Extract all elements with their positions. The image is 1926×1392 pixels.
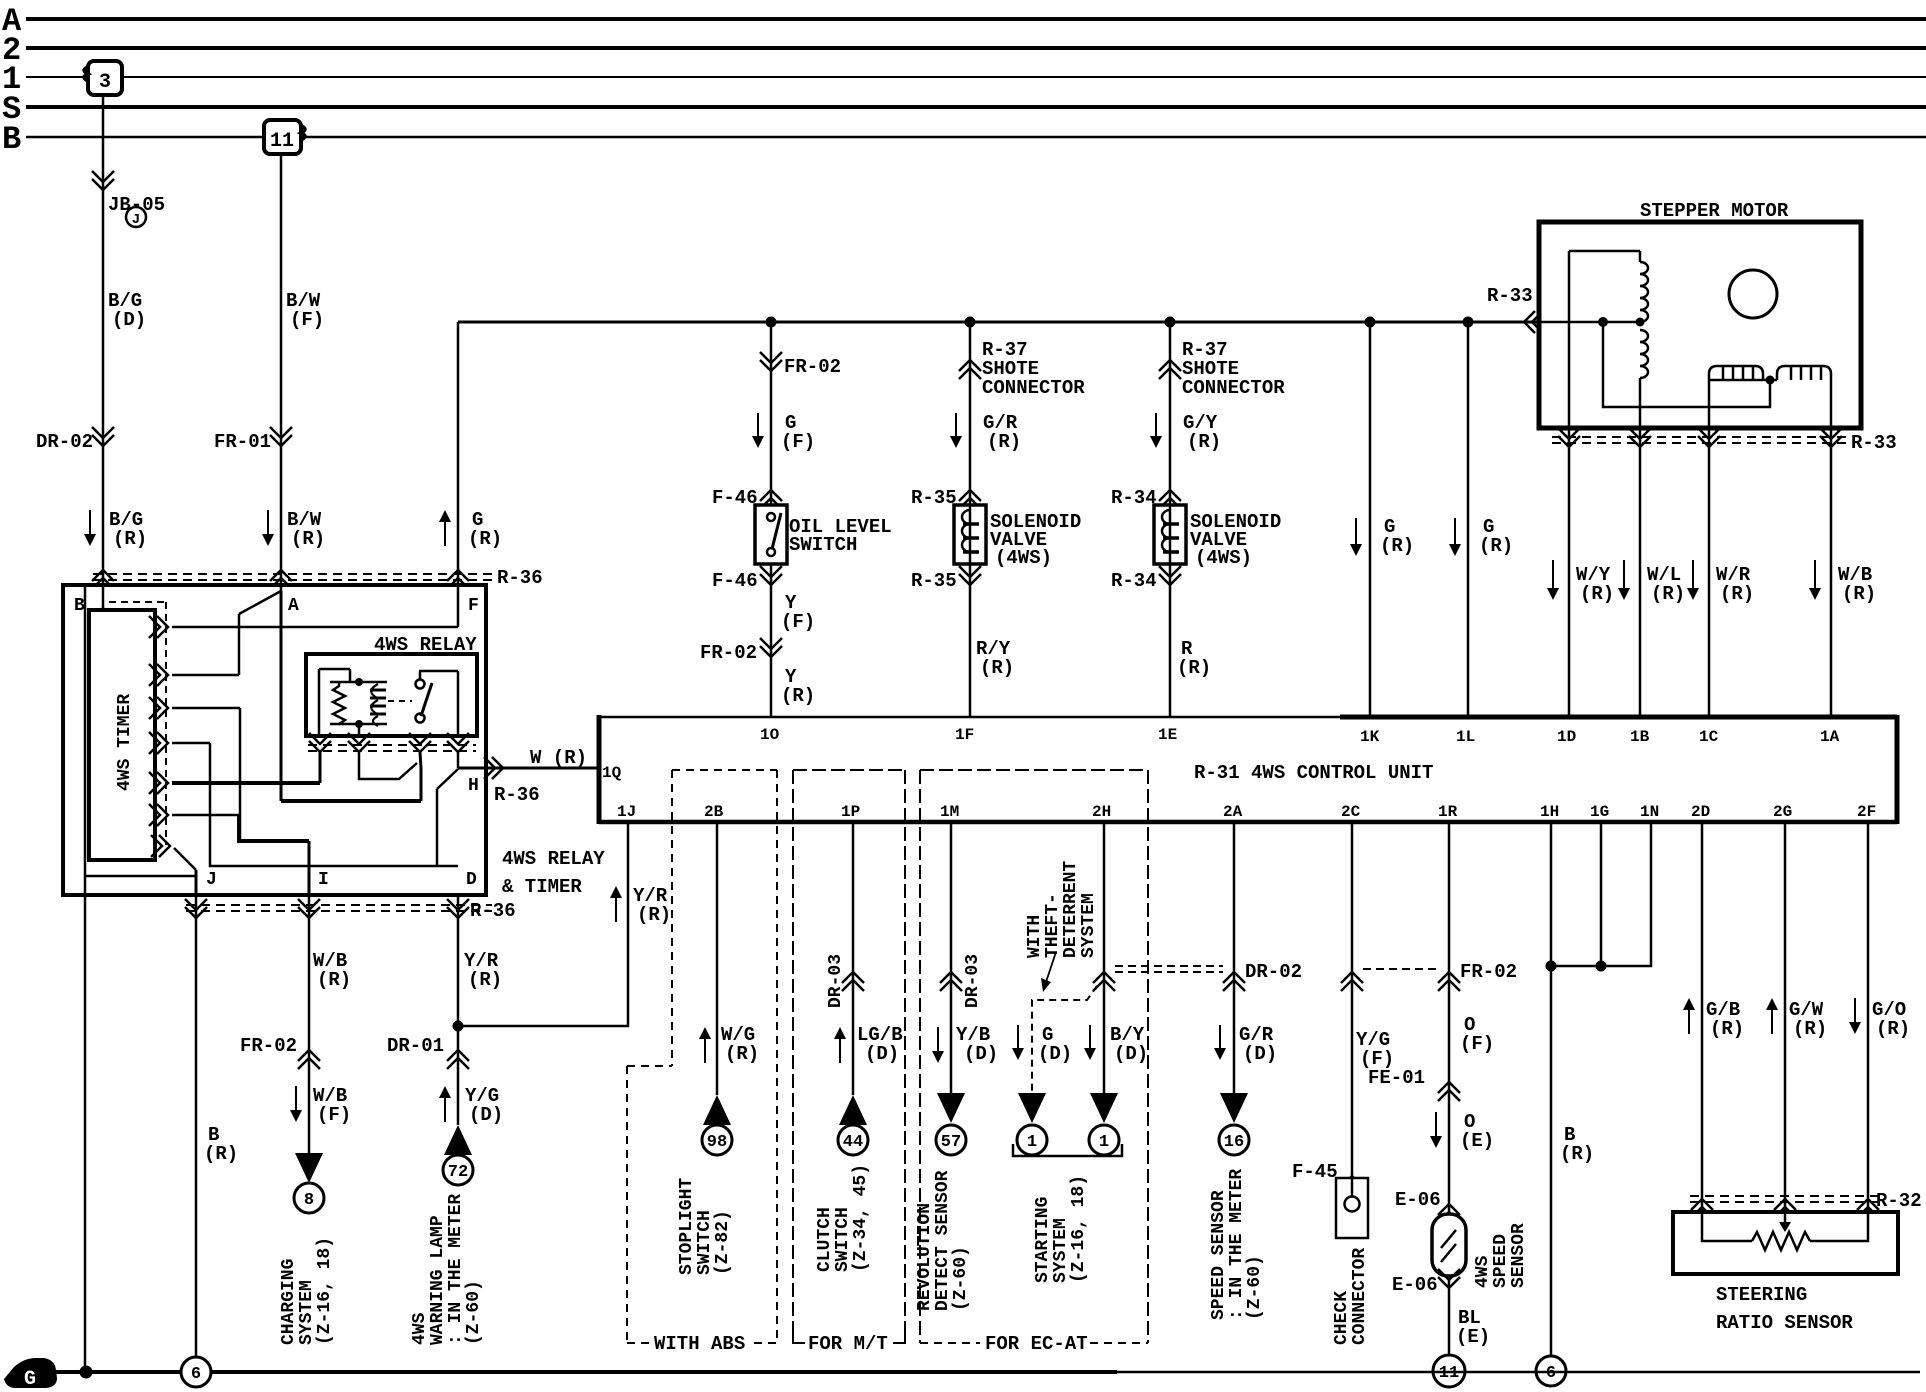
svg-text:R-32: R-32 (1876, 1190, 1922, 1212)
bus line A (26, 17, 1926, 21)
wire I charging (308, 895, 311, 1155)
connector 3 on line 1 (88, 61, 122, 95)
svg-text:(R): (R) (291, 528, 325, 550)
svg-text:1C: 1C (1699, 728, 1719, 746)
svg-text:1K: 1K (1360, 728, 1380, 746)
svg-text:R-35: R-35 (911, 570, 957, 592)
svg-text:(R): (R) (637, 904, 671, 926)
relay top rail left (319, 668, 350, 671)
svg-text:SYSTEM: SYSTEM (297, 1280, 317, 1345)
svg-text:(4WS): (4WS) (1195, 547, 1252, 569)
stepper feed wire from bus (1539, 321, 1640, 324)
wire 1K (1369, 322, 1372, 717)
svg-text:WITH: WITH (1025, 915, 1045, 958)
wire 1L (1467, 322, 1470, 717)
wire 1J (458, 822, 628, 1026)
dashed box WITH ABS (672, 769, 777, 771)
wire 1C (1708, 428, 1711, 717)
ground symbol G (4, 1358, 57, 1388)
svg-text:R-33: R-33 (1487, 285, 1533, 307)
svg-text:(E): (E) (1456, 1326, 1490, 1348)
svg-text:DR-02: DR-02 (1245, 961, 1302, 983)
connector R-34 lower chevron (1159, 566, 1181, 585)
wire 1R sensor (1448, 822, 1451, 1214)
svg-text:2B: 2B (704, 803, 724, 821)
svg-text:(R): (R) (725, 1043, 759, 1065)
svg-text:J: J (132, 212, 140, 228)
svg-text:2C: 2C (1341, 803, 1361, 821)
wire 1O lower (770, 564, 773, 717)
svg-text:(R): (R) (1177, 657, 1211, 679)
steering sensor right lead (1810, 1212, 1868, 1241)
svg-text:FR-02: FR-02 (700, 642, 757, 664)
relay right leg (457, 671, 460, 736)
svg-text:(R): (R) (980, 657, 1014, 679)
wire pin B to timer (102, 585, 105, 610)
circle 1 starting (1089, 1125, 1119, 1155)
svg-text:STEERING: STEERING (1716, 1284, 1807, 1306)
svg-text:1N: 1N (1640, 803, 1659, 821)
bus line B (26, 136, 1926, 139)
svg-text:F: F (468, 596, 479, 616)
svg-text:(R): (R) (204, 1143, 238, 1165)
4WS speed sensor symbol (1432, 1214, 1466, 1276)
svg-text:2A: 2A (1223, 803, 1243, 821)
svg-text:(F): (F) (317, 1104, 351, 1126)
circle 98 stoplight (702, 1125, 732, 1155)
arrow down G (D) (1017, 1025, 1019, 1052)
svg-text:(R): (R) (781, 685, 815, 707)
svg-text:THEFT-: THEFT- (1043, 893, 1063, 958)
svg-text:2F: 2F (1857, 803, 1876, 821)
svg-text:D: D (466, 870, 477, 890)
svg-text:8: 8 (304, 1191, 314, 1210)
svg-text:R-33: R-33 (1851, 432, 1897, 454)
triangle from warning lamp (444, 1125, 472, 1155)
circle 44 clutch (838, 1125, 868, 1155)
svg-text:R-34: R-34 (1111, 487, 1157, 509)
relay top rail right (419, 670, 458, 673)
svg-text:(F): (F) (781, 431, 815, 453)
wire 1D (1568, 428, 1571, 717)
svg-text:1M: 1M (940, 803, 959, 821)
relay coil bottom exit wire (359, 752, 417, 779)
bus line S (26, 105, 1926, 109)
svg-text:CHECK: CHECK (1332, 1291, 1352, 1345)
connector R-33 chevron left (1524, 311, 1543, 333)
svg-text:(Z-60): (Z-60) (951, 1246, 971, 1311)
connector R-35 upper chevron (959, 490, 981, 509)
wire 1F lower (969, 564, 972, 717)
connector R-33 band (1552, 436, 1848, 438)
svg-text:(F): (F) (781, 611, 815, 633)
check connector box (1336, 1178, 1368, 1238)
stepper coil leg 1A (1830, 380, 1833, 428)
connector FR-01 chevron (270, 427, 292, 446)
arrow down G (R) 1K (1355, 518, 1357, 548)
svg-text:(R): (R) (1580, 583, 1614, 605)
relay left leg (318, 669, 321, 736)
timer row I lower wire (172, 814, 239, 817)
connector R-37 chevron 1 (959, 360, 981, 379)
steering ratio sensor box (1673, 1212, 1898, 1274)
svg-text:(R): (R) (1651, 583, 1685, 605)
stepper inner return wire (1603, 322, 1770, 407)
svg-text:(Z-82): (Z-82) (713, 1210, 733, 1275)
wire D warning lamp (457, 895, 460, 1125)
svg-text:(R): (R) (468, 528, 502, 550)
connector F-46 lower chevron (760, 566, 782, 585)
relay connector band (308, 744, 476, 746)
connector FR-02 chevron I (298, 1050, 320, 1069)
svg-text:DR-03: DR-03 (826, 954, 846, 1008)
svg-text:F-46: F-46 (712, 487, 758, 509)
svg-text:(R): (R) (317, 969, 351, 991)
connector R-34 upper chevron (1159, 490, 1181, 509)
junction 1G (1596, 961, 1607, 972)
connector R-32 band (1690, 1195, 1878, 1197)
svg-text:(R): (R) (987, 431, 1021, 453)
connector R-36 top band (93, 573, 492, 575)
svg-text:(D): (D) (1114, 1043, 1148, 1065)
wire 1B (1639, 428, 1642, 717)
svg-text:2D: 2D (1691, 803, 1710, 821)
wire 2C check (1351, 822, 1354, 1178)
connector DR-01 chevron (447, 1050, 469, 1069)
wire 1N (1551, 822, 1651, 966)
4WS timer box (89, 610, 155, 860)
svg-text:1A: 1A (1820, 728, 1840, 746)
svg-text:H: H (468, 776, 479, 796)
junction node 1E (1165, 317, 1176, 328)
triangle to charging system (295, 1153, 323, 1183)
arrow down G/R (R) (955, 413, 957, 440)
svg-text:(R): (R) (1720, 583, 1754, 605)
timer row A wire (172, 674, 239, 677)
stepper horizontal coil left (1709, 366, 1763, 380)
arrow down G/R (D) (1219, 1025, 1221, 1052)
svg-text:4WS TIMER: 4WS TIMER (115, 694, 135, 791)
svg-text:FOR M/T: FOR M/T (808, 1333, 888, 1355)
connector F-45 chevron (1341, 1176, 1363, 1195)
svg-text:STEPPER MOTOR: STEPPER MOTOR (1640, 200, 1789, 222)
connector FR-02 chevron 1R (1438, 972, 1460, 991)
4WS relay and timer outer box (63, 585, 486, 895)
relay coil (370, 689, 386, 692)
svg-text:WARNING LAMP: WARNING LAMP (428, 1215, 448, 1345)
circled J (126, 207, 146, 227)
svg-text:FR-01: FR-01 (214, 431, 271, 453)
steering sensor wiper (1784, 1212, 1787, 1222)
ground bus wire (40, 1370, 1117, 1374)
steering sensor potentiometer (1752, 1232, 1810, 1250)
connector FR-02 chevron upper (760, 352, 782, 371)
circle 72 warning lamp (443, 1155, 473, 1185)
svg-text:(Z-16, 18): (Z-16, 18) (315, 1237, 335, 1345)
triangle to starting system 2 (1090, 1093, 1118, 1123)
wire pin A vertical (280, 591, 283, 801)
svg-text:4WS RELAY: 4WS RELAY (502, 848, 605, 870)
arrow down W/B (F) (295, 1086, 297, 1114)
circle 11 ground (1433, 1355, 1465, 1387)
svg-text:1R: 1R (1438, 803, 1458, 821)
svg-text:1Q: 1Q (602, 764, 622, 782)
svg-text:FOR EC-AT: FOR EC-AT (985, 1333, 1088, 1355)
arrow down B/Y (1089, 1025, 1091, 1052)
control unit R-31 box (599, 716, 1340, 719)
stepper coil leg 1C (1708, 380, 1711, 428)
ground rail to bus (84, 876, 87, 1372)
steering sensor left lead (1702, 1212, 1752, 1241)
svg-text:(D): (D) (1038, 1043, 1072, 1065)
svg-text:(F): (F) (290, 309, 324, 331)
junction node 1F (965, 317, 976, 328)
junction D to 1J (453, 1021, 464, 1032)
timer row D wire (172, 742, 210, 745)
svg-text:(4WS): (4WS) (995, 547, 1052, 569)
svg-text:G: G (24, 1368, 36, 1391)
svg-text:(Z-60): (Z-60) (1245, 1255, 1265, 1320)
svg-text:B: B (74, 596, 85, 616)
connector E-06 lower chevron (1438, 1269, 1460, 1288)
svg-text:(R): (R) (1187, 431, 1221, 453)
svg-text:1D: 1D (1557, 728, 1576, 746)
dashed box FOR M/T (793, 769, 905, 771)
svg-text:57: 57 (941, 1133, 961, 1152)
svg-text:F-45: F-45 (1292, 1161, 1338, 1183)
connector E-06 upper chevron (1438, 1204, 1460, 1223)
svg-text:FR-02: FR-02 (240, 1035, 297, 1057)
svg-text:A: A (288, 596, 299, 616)
stepper vertical coil lower (1640, 330, 1648, 378)
svg-text:44: 44 (843, 1133, 863, 1152)
wire 1F upper (969, 322, 972, 505)
svg-text:STARTING: STARTING (1033, 1197, 1053, 1283)
wire relay to D-net diagonal (437, 769, 458, 789)
wire 1R to ground bus (1448, 1276, 1451, 1355)
relay coil bottom bar (330, 723, 387, 726)
svg-text:E-06: E-06 (1395, 1189, 1441, 1211)
wire 1H (1550, 822, 1553, 1356)
svg-text:RATIO SENSOR: RATIO SENSOR (1716, 1312, 1853, 1334)
svg-text:FR-02: FR-02 (784, 356, 841, 378)
solenoid valve 4WS no.2 (1154, 505, 1186, 564)
svg-text:CHARGING: CHARGING (279, 1259, 299, 1345)
svg-text:B: B (2, 121, 21, 158)
svg-text:R-35: R-35 (911, 487, 957, 509)
stepper horizontal coil right (1777, 366, 1831, 380)
arrow down W/R (1692, 560, 1694, 592)
connector DR-03 chevron 1M (940, 972, 962, 991)
circle 1 theft (1017, 1125, 1047, 1155)
arrow up G/B (1688, 1006, 1690, 1034)
triangle to revolution sensor (937, 1093, 965, 1123)
svg-text:(R): (R) (113, 528, 147, 550)
wire 2G (1784, 822, 1787, 1212)
svg-text:(R): (R) (1560, 1143, 1594, 1165)
arrow up on G wire (444, 518, 446, 546)
connector DR-02 chevron 2H (1093, 972, 1115, 991)
svg-text:: IN THE METER: : IN THE METER (446, 1194, 466, 1345)
svg-text:1J: 1J (617, 803, 636, 821)
svg-text:SENSOR: SENSOR (1509, 1223, 1529, 1288)
arrow down W/Y (1552, 560, 1554, 592)
svg-text:1L: 1L (1456, 728, 1475, 746)
wire J to ground bus (195, 895, 198, 1357)
relay resistor (333, 682, 345, 724)
connector FR-02 chevron 2C (1341, 972, 1363, 991)
relay switch dashed link (388, 700, 412, 702)
bus line 1 (26, 76, 1926, 78)
svg-text:SPEED: SPEED (1491, 1234, 1511, 1288)
arrow down G/O (1854, 998, 1856, 1026)
svg-text:R-36: R-36 (497, 567, 543, 589)
svg-text:(F): (F) (1460, 1033, 1494, 1055)
wire 1O upper (770, 322, 773, 505)
wire 1G (1600, 822, 1603, 966)
arrow down W/L (1623, 560, 1625, 592)
svg-text:1B: 1B (1630, 728, 1650, 746)
svg-text:STOPLIGHT: STOPLIGHT (677, 1178, 697, 1275)
svg-text:(D): (D) (469, 1104, 503, 1126)
svg-text:1: 1 (1027, 1133, 1037, 1152)
connector R-35 lower chevron (959, 566, 981, 585)
svg-text:6: 6 (191, 1365, 201, 1384)
wire H to control unit (458, 767, 599, 770)
relay switch exit wire (420, 752, 421, 801)
svg-text:SYSTEM: SYSTEM (1079, 893, 1099, 958)
wire B/W from connector 11 (280, 154, 283, 591)
circle 6 left ground (181, 1357, 211, 1387)
svg-text:WITH ABS: WITH ABS (654, 1333, 745, 1355)
4WS relay box (306, 654, 477, 736)
svg-text:W (R): W (R) (530, 747, 587, 769)
wire 1M revolution (950, 822, 953, 1095)
svg-text:1G: 1G (1590, 803, 1609, 821)
ground junction dot (80, 1366, 93, 1379)
svg-text:(R): (R) (1710, 1018, 1744, 1040)
oil level switch F-46 (755, 505, 787, 564)
svg-text:REVOLUTION: REVOLUTION (915, 1203, 935, 1311)
wire 1P clutch (852, 822, 855, 1095)
svg-text:SWITCH: SWITCH (789, 534, 857, 556)
junction node 1K (1365, 317, 1376, 328)
arrow down O (E) (1435, 1112, 1437, 1140)
svg-text:FR-02: FR-02 (1460, 961, 1517, 983)
inner ground rail bottom (85, 875, 196, 878)
svg-text:3: 3 (99, 71, 111, 94)
stepper feed junction (1598, 317, 1608, 327)
arrow up Y/R (615, 894, 617, 922)
svg-text:DR-03: DR-03 (963, 954, 983, 1008)
svg-text:1F: 1F (955, 726, 974, 744)
solenoid valve 4WS no.1 (954, 505, 986, 564)
triangle from stoplight (703, 1095, 731, 1125)
circle 6 right ground (1536, 1356, 1566, 1386)
wire 2H starting (1103, 822, 1106, 1095)
svg-text:(R): (R) (1479, 535, 1513, 557)
triangle to speed sensor (1220, 1093, 1248, 1123)
circle 8 charging (294, 1183, 324, 1213)
wire 1A (1830, 428, 1833, 717)
junction node 1O (766, 317, 777, 328)
arrow up LG/B (839, 1035, 841, 1063)
svg-text:1H: 1H (1540, 803, 1559, 821)
svg-text:I: I (318, 870, 329, 890)
svg-text:(R): (R) (1793, 1018, 1827, 1040)
stepper inner wire 1D leg (1568, 251, 1571, 428)
arrow down on B/W (267, 510, 269, 538)
svg-text:16: 16 (1224, 1133, 1244, 1152)
svg-text:11: 11 (1439, 1364, 1459, 1383)
svg-text:(D): (D) (964, 1043, 998, 1065)
arrow up Y/G (D) (444, 1094, 446, 1122)
dashed box FOR EC-AT (920, 769, 1148, 771)
svg-text:(Z-60): (Z-60) (464, 1280, 484, 1345)
svg-text:CONNECTOR: CONNECTOR (982, 377, 1085, 399)
svg-text:R-34: R-34 (1111, 570, 1157, 592)
stepper coil tap junction (1636, 318, 1645, 327)
svg-text:SYSTEM: SYSTEM (1051, 1218, 1071, 1283)
theft system pointer arrow (1046, 952, 1056, 982)
timer row relay wire thick (172, 781, 320, 785)
svg-text:(Z-16, 18): (Z-16, 18) (1069, 1175, 1089, 1283)
connector FR-02 chevron lower (760, 638, 782, 657)
timer row F wire (172, 626, 458, 629)
wire 2D (1701, 822, 1704, 1212)
arrow up W/G (704, 1035, 706, 1063)
connector DR-02 chevron (92, 427, 114, 446)
relay right exit wire (457, 752, 460, 768)
svg-text:(R): (R) (1876, 1018, 1910, 1040)
arrow up G/W (1771, 1006, 1773, 1034)
arrow down W/B (1814, 560, 1816, 592)
svg-text:E-06: E-06 (1392, 1274, 1438, 1296)
arrow down G (F) (757, 413, 759, 440)
svg-text:72: 72 (448, 1163, 468, 1182)
connector JB-05 chevron (92, 171, 114, 190)
wire B/G from connector 3 (102, 95, 105, 610)
svg-text:(D): (D) (112, 309, 146, 331)
relay switch (416, 680, 425, 689)
connector R-37 chevron 2 (1159, 360, 1181, 379)
svg-text:F-46: F-46 (712, 570, 758, 592)
svg-text:R-36: R-36 (494, 784, 540, 806)
svg-text:& TIMER: & TIMER (502, 876, 582, 898)
timer dashed connector rail (165, 602, 167, 845)
timer row I upper wire (172, 707, 240, 710)
svg-text:DR-01: DR-01 (387, 1035, 444, 1057)
svg-text:SWITCH: SWITCH (833, 1207, 853, 1272)
svg-text:SWITCH: SWITCH (695, 1210, 715, 1275)
connector DR-03 chevron 1P (842, 972, 864, 991)
dashed link FR-02 (1363, 968, 1438, 970)
svg-text:: IN THE METER: : IN THE METER (1227, 1169, 1247, 1320)
stepper rotor circle (1729, 270, 1777, 318)
svg-text:DR-02: DR-02 (36, 431, 93, 453)
svg-text:SPEED SENSOR: SPEED SENSOR (1209, 1190, 1229, 1320)
svg-text:6: 6 (1546, 1364, 1556, 1383)
bus line 2 (26, 46, 1926, 50)
svg-text:DETECT SENSOR: DETECT SENSOR (933, 1170, 953, 1311)
wire 1E upper (1169, 322, 1172, 505)
wire 1E lower (1169, 564, 1172, 717)
stepper motor box (1539, 222, 1861, 428)
timer row J wire (151, 835, 170, 857)
svg-text:R-36: R-36 (470, 900, 516, 922)
inner ground rail vertical (84, 585, 87, 876)
svg-text:1: 1 (1099, 1133, 1109, 1152)
